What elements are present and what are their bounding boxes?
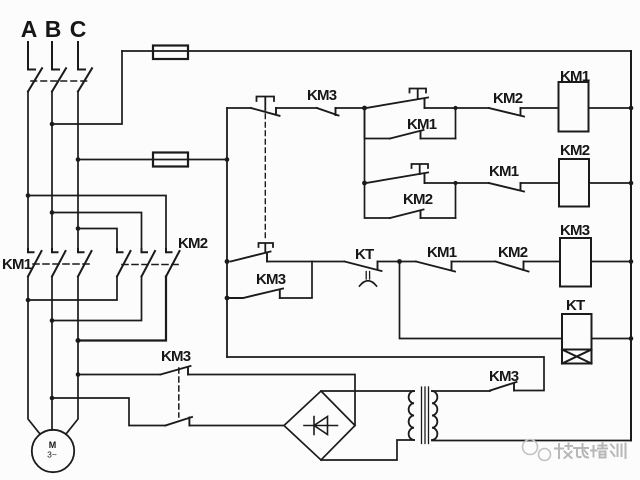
wire phase B vertical to KM1 xyxy=(51,92,53,253)
motor M circle xyxy=(32,430,74,472)
wire KM1 pole3 lower xyxy=(77,277,79,341)
KM3 brake link dashed xyxy=(178,368,180,417)
wire KM2 interlock to KM1 coil xyxy=(521,107,559,109)
wire rung3 between interlocks xyxy=(452,261,496,263)
pushbutton SB1 stop NC contact xyxy=(251,108,280,116)
wire fuse FU1 tap from phase B xyxy=(52,51,122,124)
wire SB4 to KT contact xyxy=(267,261,345,263)
wire rung1 to start junction xyxy=(336,107,365,109)
wire KM3 selfhold right riser xyxy=(280,262,312,299)
disconnect switch QS pole A xyxy=(28,42,42,92)
junction dot B crossover xyxy=(50,210,55,215)
wire fuse FU2 line from phase C to left control bus xyxy=(78,159,227,161)
svg-text:C: C xyxy=(70,16,87,42)
wire KT contact to junction xyxy=(378,261,400,263)
timer KT NC time-delay contact xyxy=(345,262,382,272)
wire bridge bottom jog to transformer secondary bottom xyxy=(321,440,414,460)
junction dot after KT contact xyxy=(397,259,402,264)
wire motor lead U xyxy=(28,300,40,434)
contactor KM2 main pole 3 xyxy=(166,249,180,277)
wire KM1 selfhold right xyxy=(421,138,456,140)
junction dot rung2 start xyxy=(362,181,367,186)
svg-text:3~: 3~ xyxy=(47,450,57,460)
contactor coil KM3 xyxy=(560,238,591,287)
junction dot motor tap phase C xyxy=(76,372,81,377)
wire rung2 to KM1 interlock xyxy=(456,182,490,184)
svg-text:KT: KT xyxy=(355,246,374,263)
fuse FU2 xyxy=(153,153,188,167)
timer coil KT delay element X-box xyxy=(562,350,592,364)
svg-text:KM1: KM1 xyxy=(489,163,519,180)
svg-text:KM2: KM2 xyxy=(178,235,208,252)
svg-text:M: M xyxy=(49,440,57,450)
svg-text:A: A xyxy=(21,16,38,42)
wire KM2 selfhold branch left xyxy=(365,183,391,218)
contactor KM3 aux NO contact bottom xyxy=(490,382,517,391)
svg-text:KM2: KM2 xyxy=(498,244,528,261)
wire KM1 coil to right bus xyxy=(589,107,632,109)
junction dot merge B xyxy=(50,318,55,323)
junction dot rung1 parallel right xyxy=(453,106,457,110)
contactor coil KM1 xyxy=(559,82,589,132)
transformer core lines xyxy=(422,387,429,444)
junction dot rung3 left xyxy=(225,259,230,264)
wire KM3 pole2 to bridge left vertex xyxy=(189,425,284,427)
disconnect switch QS pole B xyxy=(52,42,66,92)
wire KM2 selfhold right xyxy=(421,217,456,219)
wire KM2 pole3 merge to phase C xyxy=(78,277,166,341)
junction dot A crossover xyxy=(26,193,31,198)
junction dot right bus KT xyxy=(629,336,634,341)
svg-text:KM1: KM1 xyxy=(2,256,32,273)
KM2 main link dashed xyxy=(122,264,179,266)
contactor KM1 selfhold NO contact xyxy=(390,130,424,139)
wire KM1 pole1 lower xyxy=(27,277,29,301)
wire phase B tap to KM3 brake pole2 xyxy=(52,398,165,426)
wire transformer primary top to KM3 aux contact xyxy=(432,390,490,392)
svg-text:KM3: KM3 xyxy=(560,222,590,239)
contactor KM1 main pole 3 xyxy=(78,249,92,277)
wire rung1 to KM2 interlock xyxy=(456,107,490,109)
junction dot right bus rung2 xyxy=(629,181,634,186)
pushbutton SB3 start NO contact xyxy=(366,173,428,184)
svg-text:KM3: KM3 xyxy=(256,271,286,288)
junction dot right bus rung1 xyxy=(629,106,634,111)
contactor KM3 selfhold NO contact xyxy=(227,289,283,299)
svg-text:KM3: KM3 xyxy=(307,87,337,104)
contactor KM3 NC interlock contact rung1 xyxy=(317,108,339,116)
svg-text:KM2: KM2 xyxy=(493,90,523,107)
junction dot merge C xyxy=(76,338,81,343)
wire left control bus xyxy=(226,108,228,357)
wire top supply rail xyxy=(122,50,631,52)
rectifier bridge VC diamond xyxy=(284,391,355,460)
pushbutton SB4 actuator xyxy=(259,243,274,253)
wire motor lead V xyxy=(51,321,53,431)
svg-text:KT: KT xyxy=(566,297,585,314)
wire phase C vertical to KM1 xyxy=(77,92,79,253)
wire KT coil to right bus xyxy=(592,338,632,340)
wire crossover tap phase B to KM2 pole2 xyxy=(52,213,142,253)
wire KM1 interlock to KM2 coil xyxy=(521,182,560,184)
junction dot rung1 start xyxy=(362,106,367,111)
transformer T primary winding right xyxy=(432,391,437,440)
watermark logo cloud xyxy=(523,440,551,461)
junction dot C crossover xyxy=(76,226,81,231)
junction dot KM3 selfhold left xyxy=(225,296,230,301)
wire motor lead W xyxy=(66,341,78,435)
svg-text:B: B xyxy=(45,16,62,42)
wire KM3 coil to right bus xyxy=(591,261,631,263)
pushbutton SB1 actuator xyxy=(257,97,275,111)
fuse FU1 xyxy=(153,46,188,60)
wire KM2 pole2 merge to phase B xyxy=(52,277,142,321)
junction dot merge A xyxy=(26,298,31,303)
wire crossover tap phase A to KM2 pole3 xyxy=(28,196,166,253)
wire KM3 aux to control bus corner xyxy=(227,357,544,391)
wire KM2 interlock to KM3 coil xyxy=(524,261,561,263)
wire rung1 left xyxy=(227,107,251,109)
wire KM2 pole1 merge to phase A xyxy=(28,277,117,301)
SB1 link to SB4 dashed xyxy=(264,114,266,241)
QS mechanical link dashed xyxy=(31,80,88,82)
timer KT delay symbol xyxy=(366,272,369,280)
wire phase C tap to KM3 brake pole1 xyxy=(78,374,161,376)
svg-text:KM2: KM2 xyxy=(403,191,433,208)
contactor KM2 NC interlock contact rung3 xyxy=(496,262,529,272)
pushbutton SB2 actuator xyxy=(410,89,427,100)
pushbutton SB2 start NO contact xyxy=(366,98,428,109)
wire bridge top to transformer secondary top xyxy=(321,390,414,392)
watermark text 技成培训 xyxy=(555,443,626,458)
junction dot phase B fuse tap xyxy=(50,122,55,127)
disconnect switch QS pole C xyxy=(78,42,92,92)
contactor KM1 NC interlock contact rung2 xyxy=(489,183,524,192)
wire transformer primary bottom rail xyxy=(432,440,631,442)
wire KM1 selfhold branch left xyxy=(365,108,391,139)
junction dot right bus rung3 xyxy=(629,259,634,264)
wire rung2 drop from rung1 junction xyxy=(364,108,366,183)
svg-text:KM2: KM2 xyxy=(560,142,590,159)
svg-text:KM1: KM1 xyxy=(427,244,457,261)
wire right supply bus xyxy=(630,51,632,441)
svg-text:KM3: KM3 xyxy=(161,348,191,365)
junction dot phase C fuse tap xyxy=(76,157,81,162)
wire KT coil branch xyxy=(400,262,563,339)
contactor KM1 NC interlock contact rung3 xyxy=(416,262,455,272)
contactor KM2 main pole 2 xyxy=(142,249,156,277)
contactor coil KM2 xyxy=(559,159,589,207)
transformer T secondary winding left xyxy=(409,391,414,440)
junction dot motor tap phase B xyxy=(50,396,55,401)
contactor KM2 main pole 1 xyxy=(117,249,131,277)
timer coil KT body xyxy=(562,314,592,350)
wire phase A vertical to KM1 xyxy=(27,92,29,253)
wire crossover tap phase C to KM2 pole1 xyxy=(78,229,117,253)
contactor KM1 main pole 2 xyxy=(52,249,66,277)
pushbutton SB3 actuator xyxy=(412,164,429,174)
junction dot rung2 parallel right xyxy=(453,181,457,185)
contactor KM2 NC interlock contact rung1 xyxy=(489,108,524,117)
wire rung1 stop to KM3 NC xyxy=(276,107,317,109)
contactor KM1 main pole 1 xyxy=(28,249,42,277)
wire KM3 pole1 to bridge right vertex xyxy=(188,375,355,426)
KM1 main link dashed xyxy=(33,263,90,265)
wire KM2 coil to right bus xyxy=(589,182,631,184)
contactor KM3 brake pole 1 NO contact xyxy=(161,366,191,375)
pushbutton SB4 NO contact rung3 xyxy=(231,252,271,262)
contactor KM2 selfhold NO contact xyxy=(390,210,424,219)
wire SB2 to parallel corner xyxy=(425,108,456,139)
wire KM1 pole2 lower xyxy=(51,277,53,321)
junction dot control bus fuse2 xyxy=(225,157,230,162)
wire rung3 to KM1 interlock xyxy=(400,261,417,263)
wire SB3 to parallel corner xyxy=(425,183,456,218)
contactor KM3 brake pole 2 NO contact xyxy=(165,417,192,426)
rectifier diode symbol xyxy=(304,417,338,435)
